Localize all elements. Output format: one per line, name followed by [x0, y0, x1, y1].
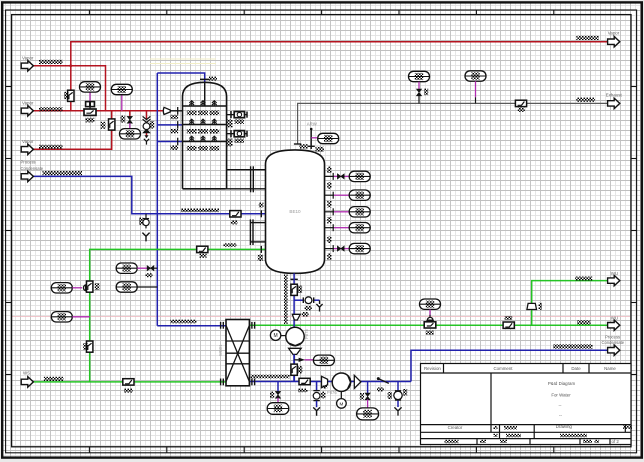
HX flange bottom-right	[251, 379, 253, 386]
instrument bubble LT3	[349, 207, 370, 217]
drain tee 2 check valve	[365, 393, 370, 400]
inline instrument on WS line	[123, 379, 134, 385]
greek green-to-vessel line	[223, 243, 236, 246]
drum spray nozzles row1	[189, 101, 216, 106]
drum feed tick upper	[177, 121, 179, 129]
svg-text:WS: WS	[23, 370, 30, 375]
node Vapor inlet 1	[21, 61, 33, 71]
svg-text:of 2: of 2	[612, 439, 620, 444]
node Exhaust outlet	[608, 98, 620, 108]
blue trunk sample valve	[142, 214, 149, 242]
wire WS inlet main	[34, 381, 227, 383]
pump P876	[332, 373, 350, 391]
svg-text:P875: P875	[304, 329, 309, 339]
svg-text:Condensate: Condensate	[21, 166, 44, 171]
vessel top vapor nozzle	[294, 143, 301, 145]
svg-text:P876: P876	[327, 390, 337, 395]
vessel right tap 5	[325, 245, 335, 252]
instrument bubble left L4	[51, 312, 72, 322]
vessel BE10 shell	[266, 150, 325, 273]
drain valve mid assembly	[313, 382, 320, 416]
svg-text:Vapor: Vapor	[22, 55, 34, 60]
instrument bubble drain 2	[357, 408, 379, 420]
drum sight glass 2	[227, 130, 247, 137]
instrument bubble green line	[420, 299, 441, 309]
vessel right tap 2	[325, 192, 335, 199]
wire pump1 down	[293, 354, 295, 365]
faint construction line yellow	[150, 58, 216, 60]
drum spray header 2	[183, 124, 227, 126]
HX flange bottom-left	[220, 379, 222, 386]
node magenta drop bubble1	[89, 92, 91, 102]
vessel bottom nozzle tick	[291, 278, 298, 280]
drum spray header 1	[183, 105, 227, 107]
node Process Condensate outlet	[608, 345, 620, 355]
zone ticks top	[89, 10, 553, 15]
svg-text:Date: Date	[571, 366, 581, 371]
inline instrument exhaust	[515, 100, 526, 106]
wire relief branch	[146, 111, 148, 120]
instrument bubble vessel top	[318, 133, 339, 143]
node magenta drop bubble2	[121, 95, 123, 111]
exhaust bubble A	[409, 71, 430, 81]
inline instrument green-to-vessel line	[197, 246, 208, 252]
svg-text:Comment: Comment	[493, 366, 513, 371]
pump P875	[286, 327, 304, 345]
drum spray nozzles row3	[189, 136, 216, 141]
svg-text:BE10: BE10	[289, 209, 301, 214]
drum WB column shell	[183, 82, 227, 189]
wire green branch to vessel	[90, 249, 266, 382]
instrument bubble LT1	[349, 171, 370, 181]
greek left of inline instrument I1	[101, 122, 106, 129]
node ARW tap magenta	[311, 137, 317, 139]
instrument bubble left L1	[51, 283, 72, 293]
wire green top takeoff	[532, 281, 608, 326]
drum inlet pipe	[170, 110, 182, 112]
svg-text:ARW: ARW	[307, 122, 318, 127]
control valve CV1 body	[84, 109, 96, 115]
inline instrument I1 on riser	[109, 119, 115, 130]
check valve under red main	[129, 111, 131, 117]
Y drain right	[394, 407, 401, 415]
inline instrument green riser lower	[87, 341, 93, 352]
svg-text:Drawing: Drawing	[556, 424, 573, 429]
instrument bubble LT5	[349, 243, 370, 253]
greek above HX	[170, 320, 196, 324]
svg-text:Vapor: Vapor	[608, 31, 620, 36]
drum spray header 3	[183, 141, 227, 143]
pump P876 suction cone	[322, 376, 328, 387]
svg-text:M: M	[274, 333, 278, 339]
wire condensate out	[411, 350, 608, 381]
wire red top header	[71, 42, 608, 111]
zone ticks bottom	[89, 447, 553, 453]
zone ticks left	[6, 87, 12, 375]
exhaust bubble B	[465, 71, 486, 81]
svg-text:Process: Process	[605, 334, 620, 339]
drum sight glass 1	[227, 111, 247, 118]
svg-text:Vapor: Vapor	[22, 100, 34, 105]
inline instrument blue bottom line	[299, 378, 310, 384]
wire process condensate inlet	[34, 176, 266, 213]
motor M pump1	[270, 330, 280, 340]
inline instrument on green riser	[87, 281, 93, 292]
vessel nozzle tick green	[260, 246, 262, 253]
funnel vent on green riser	[527, 303, 537, 309]
wire pump1 discharge	[293, 355, 295, 382]
instrument bubble LT2	[349, 190, 370, 200]
ball valve right drain	[394, 391, 402, 400]
hand valve slash on blue line	[377, 377, 380, 380]
rotated pipe label greek	[284, 275, 288, 325]
wire drain tee 2	[367, 382, 369, 394]
node Process Condensate inlet	[21, 171, 33, 181]
svg-text:For Water: For Water	[551, 393, 571, 398]
suction reducer funnel	[292, 314, 300, 320]
inline instrument on suction	[291, 284, 297, 295]
instrument bubble left L2	[116, 263, 137, 273]
drum inlet horn	[163, 107, 170, 114]
vessel ARW vent stub	[310, 129, 312, 150]
wire drum spray feed upper	[157, 124, 182, 126]
svg-text:WU: WU	[611, 315, 618, 320]
drain tee 1 check valve	[275, 391, 280, 398]
relief valve assembly	[143, 116, 151, 132]
svg-text:M: M	[339, 401, 343, 406]
svg-text:Exhaust: Exhaust	[606, 92, 623, 97]
inline instrument pump1 line	[291, 364, 297, 375]
node WS inlet	[21, 377, 33, 387]
instrument bubble PI1	[80, 82, 101, 92]
node WS outlet upper	[608, 275, 620, 285]
faint construction line pink	[12, 316, 630, 318]
node Vapor inlet 2	[21, 106, 33, 116]
instrument bubble pump1	[313, 355, 334, 365]
wire vapor inlet 3 riser	[34, 111, 112, 150]
instrument bubble PI2	[111, 84, 132, 94]
flange bars overhead+bottom	[250, 166, 252, 192]
vessel blind nozzles left	[250, 222, 265, 224]
drum spray nozzles row2	[189, 119, 216, 124]
drum feed tick lower	[177, 138, 179, 146]
drum overhead pipe to vessel	[227, 169, 266, 171]
svg-text:Name: Name	[604, 366, 616, 371]
node Vapor outlet top right	[608, 37, 620, 47]
wire drain branch right	[397, 382, 399, 392]
wire vapor main to drum	[34, 110, 165, 112]
heat exchanger WB01	[226, 320, 249, 386]
svg-text:WB01: WB01	[218, 344, 223, 356]
control valve on green line	[424, 322, 436, 328]
wire vessel sample branch	[294, 299, 303, 301]
svg-text:Revision: Revision	[424, 366, 441, 371]
instrument bubble LT4	[349, 223, 370, 233]
wire blue trunk	[157, 73, 204, 83]
svg-text:WU: WU	[611, 271, 618, 276]
node Vapor inlet 3	[21, 144, 33, 154]
wire drain tee 1	[277, 382, 279, 393]
instrument bubble left L3	[116, 282, 137, 292]
wire vapor inlet 1	[34, 66, 106, 111]
inline instrument condensate-to-vessel line	[230, 211, 241, 217]
pump2 discharge cone	[354, 375, 361, 388]
greek on blue out line	[251, 375, 290, 379]
vessel right tap 4	[325, 224, 335, 231]
greek in title block	[494, 426, 498, 429]
svg-text:Process: Process	[21, 159, 36, 164]
sample valve branch	[303, 297, 322, 312]
wire HX outlet bottom	[249, 381, 411, 383]
wire exhaust header	[298, 103, 608, 144]
HX flange top-left	[220, 322, 222, 329]
instrument bubble drain 1	[267, 403, 289, 415]
motor M pump2	[337, 399, 347, 409]
pump1 discharge cone	[289, 348, 302, 354]
node magenta tap to bubble	[305, 359, 315, 361]
inline instrument green long line	[503, 322, 514, 328]
vessel right tap 3	[325, 208, 335, 215]
drum top nozzle tick	[200, 78, 210, 80]
instrument bubble PI3	[120, 129, 141, 139]
drum bottom pipe to vessel	[226, 188, 266, 190]
svg-text:Creator: Creator	[448, 425, 463, 430]
vessel right tap 1	[325, 173, 335, 180]
greek condensate-to-vessel line	[181, 209, 219, 213]
wire drum spray feed lower	[157, 141, 182, 143]
drum top feed dip pipe	[204, 83, 206, 106]
svg-text:Vapor: Vapor	[22, 139, 34, 144]
vessel nozzle tick blue	[260, 210, 262, 217]
HX flange top-right	[251, 322, 253, 329]
node WS outlet lower	[608, 320, 620, 330]
wire HX green out long	[249, 324, 607, 326]
svg-text:Condensate: Condensate	[602, 340, 625, 345]
wire pump1 suction	[293, 273, 295, 328]
inline instrument on red header riser	[68, 90, 74, 101]
zone ticks right	[631, 87, 637, 375]
control valve CV1 actuator	[86, 102, 95, 107]
svg-text:P&Id Diagram: P&Id Diagram	[548, 381, 576, 386]
node junction dot	[69, 64, 72, 67]
